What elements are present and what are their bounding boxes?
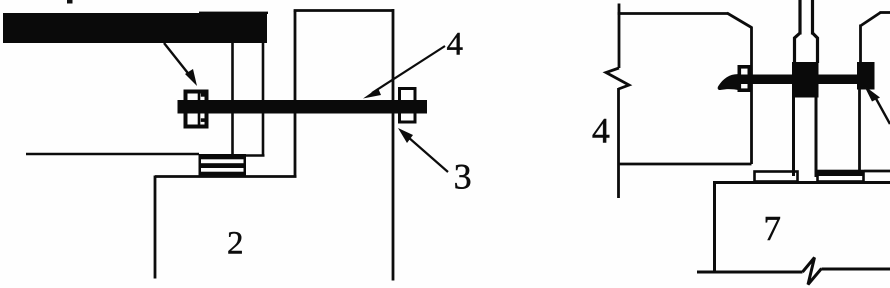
column outline (left figure)	[294, 9, 393, 281]
anchor bolt: lower sleeve below nut	[794, 98, 817, 178]
wire: vertical line pair under beam (beam web / end plates)	[231, 43, 234, 155]
anchor bolt: narrow upper shaft	[800, 0, 813, 35]
leader arrow from beam to bolt plate	[164, 43, 197, 86]
svg-text:4: 4	[447, 26, 464, 62]
leader arrow for label 3	[398, 128, 448, 172]
svg-text:2: 2	[227, 226, 244, 262]
right column piece outline	[860, 13, 890, 171]
anchor bolt: shoulder and wide sleeve	[795, 33, 818, 63]
leader arrow exiting right edge	[864, 86, 890, 125]
stray scan speck above beam	[67, 0, 73, 4]
corbel top surface line	[155, 175, 297, 178]
thin lip on top edge of beam flange	[199, 12, 268, 14]
left figure: top beam flange (solid black bar)	[3, 13, 267, 43]
seat plate under right sleeve (dark top)	[817, 170, 865, 182]
washer plate on column face	[739, 67, 749, 90]
left column piece outline with break symbol	[606, 4, 752, 199]
right nut on tie bar (solid)	[857, 62, 875, 90]
horizontal tie bar (solid)	[737, 75, 867, 85]
svg-text:7: 7	[764, 209, 782, 248]
wire: short ledge line right of pad	[246, 154, 265, 157]
hook / bent anchor head at left end of tie bar	[718, 74, 739, 90]
seat plate under left sleeve	[755, 172, 798, 182]
svg-text:4: 4	[592, 111, 610, 151]
central nut (solid)	[792, 62, 819, 98]
laminated bearing pad	[199, 154, 247, 177]
corbel front face	[154, 176, 157, 279]
nut on right end of bar at column face	[400, 89, 416, 123]
leader arrow for label 4 (left figure)	[363, 46, 445, 99]
wire: beam soffit line	[26, 153, 199, 156]
pedestal (foundation block)	[697, 181, 890, 285]
bolt plate with anchor (left side of bar)	[186, 90, 207, 129]
horizontal connection bar (solid black)	[178, 100, 428, 114]
wire: second vertical under beam	[262, 43, 265, 156]
svg-text:3: 3	[454, 157, 472, 197]
wire: ledge line right of seat plate	[865, 170, 890, 173]
